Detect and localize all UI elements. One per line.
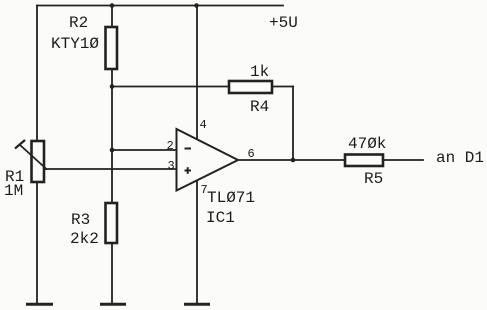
node junction pin2 branch [110,148,115,153]
op-amp non-inverting input plus sign [185,167,192,174]
wire left rail [36,6,38,142]
wire IC power pin7 to ground [196,180,198,303]
svg-text:47Øk: 47Øk [348,135,386,153]
resistor R5 body [345,155,383,167]
svg-text:TLØ71: TLØ71 [207,189,255,207]
resistor R3 body [106,203,118,243]
svg-text:+5U: +5U [269,14,298,32]
ground symbol middle [100,303,126,306]
wire R4 to output node [292,87,294,161]
svg-text:R4: R4 [250,98,269,116]
node junction top rail / IC supply [194,3,199,8]
resistor R2 body [106,27,118,69]
wire R5 to an D1 [383,159,423,161]
wire R1 bottom to ground [36,182,38,303]
svg-text:IC1: IC1 [206,209,235,227]
wire R4 right lead [272,86,293,88]
wire R3 bottom to ground [111,243,113,303]
svg-text:R5: R5 [364,170,383,188]
op-amp inverting input minus sign [185,148,192,150]
svg-text:6: 6 [248,147,255,161]
op-amp IC1 triangle [177,129,239,191]
potentiometer R1 adjust T-bar [15,140,25,149]
wire branch down to R3 [111,150,113,203]
resistor R4 body [229,81,272,93]
wire R2 bottom to node A [111,69,113,87]
wire R2 top lead [111,6,113,28]
wire pin3 input from R1 wiper [45,168,177,170]
svg-text:KTY1Ø: KTY1Ø [51,35,99,53]
svg-text:1k: 1k [250,63,269,81]
svg-text:3: 3 [168,159,175,173]
wire IC power pin4 [196,6,198,140]
svg-text:R2: R2 [69,14,88,32]
potentiometer R1 wiper arrow [20,145,47,170]
svg-text:4: 4 [200,118,207,132]
wire +5V top rail [37,5,283,7]
node junction top rail / R2 [110,3,115,8]
svg-text:an D1: an D1 [436,149,484,167]
resistor R1 potentiometer body [32,141,45,182]
wire pin2 input [112,149,177,151]
svg-text:R3: R3 [71,211,90,229]
node A junction R2/R3/R4 [110,84,115,89]
svg-text:2: 2 [167,139,174,153]
ground symbol right [184,303,210,306]
node junction output / R4 feedback [291,158,296,163]
wire node A to R4 [112,86,229,88]
svg-text:2k2: 2k2 [70,230,99,248]
ground symbol left [26,303,53,306]
svg-text:1M: 1M [4,182,23,200]
wire output to R5 [238,159,345,161]
wire node A down to pin2 branch [111,87,113,151]
